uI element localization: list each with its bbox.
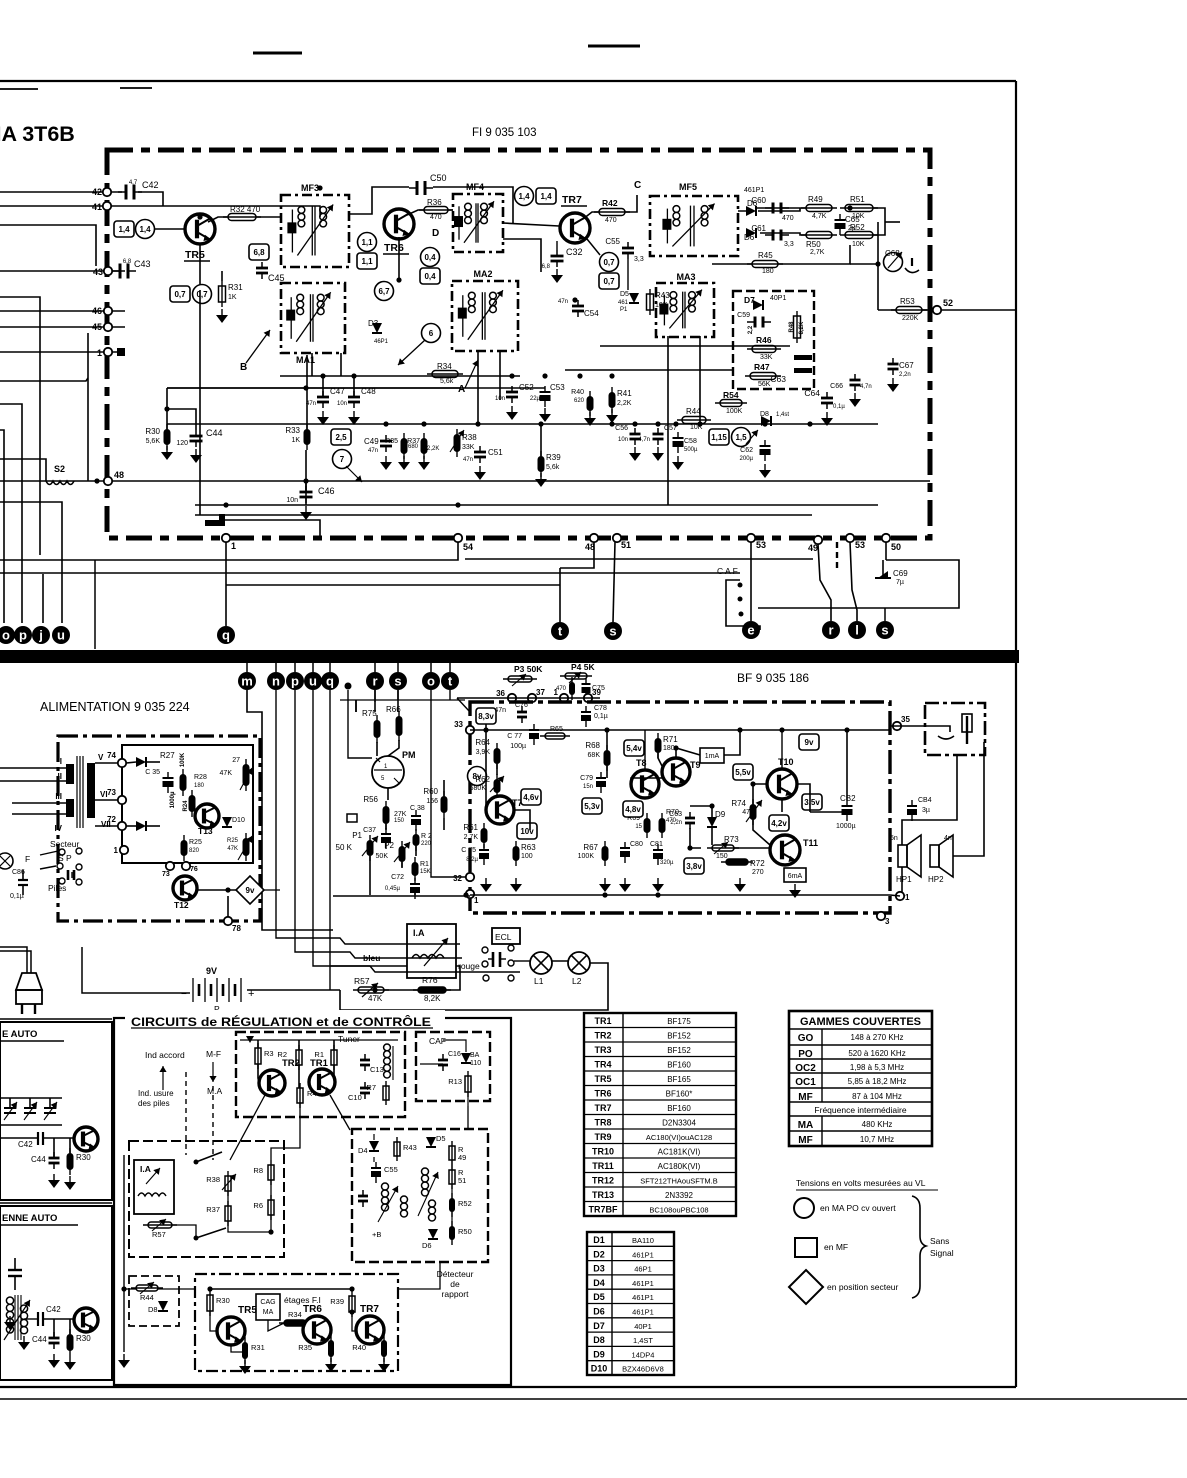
resistor R50 2,7K <box>806 232 832 239</box>
svg-text:D7: D7 <box>744 295 755 305</box>
svg-text:1,4: 1,4 <box>518 192 530 201</box>
legend brace <box>912 1196 926 1298</box>
diode D6 a <box>746 206 756 216</box>
svg-text:6mA: 6mA <box>788 873 803 880</box>
resistor R7 <box>383 1086 389 1100</box>
pot 27 47K <box>243 764 250 786</box>
wire r riser2 <box>374 690 376 702</box>
svg-text:m: m <box>241 674 253 689</box>
svg-text:15n: 15n <box>583 784 593 790</box>
resistor R62 680K <box>494 779 501 793</box>
capacitor C50 <box>416 181 419 195</box>
resistor R1 <box>331 1050 337 1065</box>
capacitor C43 <box>119 264 122 279</box>
meter 1mA <box>700 748 724 763</box>
svg-text:0,1µ: 0,1µ <box>10 893 24 900</box>
svg-text:T12: T12 <box>174 900 189 910</box>
page bottom edge line <box>0 1398 1187 1400</box>
voltage box 1,15 <box>709 429 729 445</box>
diode D5 <box>629 293 639 303</box>
svg-text:TR5: TR5 <box>238 1305 257 1316</box>
wire box2 <box>53 1319 55 1338</box>
svg-text:en MA PO cv ouvert: en MA PO cv ouvert <box>820 1203 896 1213</box>
svg-text:7: 7 <box>340 455 345 464</box>
wire 45 feed <box>0 326 125 328</box>
node 1 bottom <box>222 534 230 542</box>
wire t stub <box>449 663 451 672</box>
svg-text:R39: R39 <box>546 453 561 462</box>
wire T10 drop <box>781 730 783 769</box>
wire o riser2 <box>431 690 466 877</box>
svg-text:4,8v: 4,8v <box>625 805 641 814</box>
svg-text:8,2µ: 8,2µ <box>466 857 478 863</box>
svg-text:R25: R25 <box>189 839 202 846</box>
wire n riser <box>276 690 460 944</box>
svg-text:bleu: bleu <box>363 953 380 963</box>
wire MF4 to TR7 <box>503 223 559 226</box>
terminal o <box>0 626 15 644</box>
node 53 b <box>846 534 854 542</box>
svg-text:MF: MF <box>798 1092 812 1103</box>
resistor R53 220K <box>896 307 922 314</box>
svg-text:1,15: 1,15 <box>711 433 727 442</box>
resistor R75 <box>374 720 381 738</box>
svg-text:en MF: en MF <box>824 1242 848 1252</box>
node 39 <box>584 694 592 702</box>
terminal t lower <box>441 672 459 690</box>
wire C46 col <box>305 481 307 505</box>
resistor R69 15 <box>644 818 651 833</box>
capacitor C45 <box>256 267 268 270</box>
capacitor C49 47n <box>380 440 392 443</box>
svg-text:TR4: TR4 <box>594 1060 611 1070</box>
svg-text:470: 470 <box>782 215 794 222</box>
resistor R46 33K <box>752 346 776 353</box>
svg-text:5,6K: 5,6K <box>146 438 161 445</box>
resistor R66 <box>396 716 403 736</box>
svg-text:6,8: 6,8 <box>253 248 265 257</box>
svg-text:54: 54 <box>463 542 473 552</box>
svg-text:100K: 100K <box>180 752 186 767</box>
svg-text:9v: 9v <box>246 886 255 895</box>
wire R33 col <box>306 355 308 429</box>
wire r curve <box>818 544 831 621</box>
svg-text:110: 110 <box>470 1060 481 1067</box>
svg-text:7µ: 7µ <box>896 579 904 586</box>
svg-text:BF175: BF175 <box>667 1017 691 1026</box>
svg-text:B: B <box>240 362 247 373</box>
resistor R42 470 <box>599 209 625 216</box>
svg-text:47n: 47n <box>558 299 568 305</box>
svg-text:36: 36 <box>496 689 505 698</box>
capacitor C55 3,3 <box>622 247 634 250</box>
node 35 <box>893 722 901 730</box>
svg-text:10n: 10n <box>286 497 298 504</box>
svg-text:R37: R37 <box>407 438 420 445</box>
svg-text:39: 39 <box>592 688 601 697</box>
svg-text:50 K: 50 K <box>336 843 353 852</box>
node 45 <box>104 323 112 331</box>
svg-text:6,8: 6,8 <box>542 264 551 270</box>
capacitor C52 10n <box>506 391 518 394</box>
svg-text:TR6: TR6 <box>303 1304 322 1315</box>
svg-text:2,2n: 2,2n <box>899 372 911 378</box>
svg-text:HP2: HP2 <box>928 875 944 884</box>
svg-text:6,8: 6,8 <box>123 259 132 265</box>
svg-text:470: 470 <box>605 217 617 224</box>
legend circle <box>794 1198 814 1218</box>
capacitor CB4 <box>907 805 917 807</box>
transistor T10 <box>767 769 797 799</box>
svg-text:P3 50K: P3 50K <box>514 664 543 674</box>
connector sq <box>347 814 357 822</box>
svg-text:2,2K: 2,2K <box>617 400 632 407</box>
resistor R32 470 <box>228 214 256 221</box>
svg-text:II: II <box>58 772 62 781</box>
svg-text:l: l <box>855 623 859 638</box>
svg-text:D5: D5 <box>620 291 629 298</box>
svg-text:R31: R31 <box>228 283 243 292</box>
transistor TR7 <box>560 213 590 243</box>
svg-text:1,4st: 1,4st <box>776 412 789 418</box>
svg-text:D10: D10 <box>232 817 245 824</box>
transistor T11 <box>770 835 800 865</box>
svg-text:1,98 à 5,3 MHz: 1,98 à 5,3 MHz <box>850 1063 904 1072</box>
terminal n lower <box>267 672 285 690</box>
wire MA2 col <box>477 351 479 424</box>
svg-text:M.A: M.A <box>207 1086 222 1096</box>
voltage box 0,7 b <box>599 273 619 289</box>
svg-text:40P1: 40P1 <box>634 1322 652 1331</box>
svg-text:45: 45 <box>92 322 102 332</box>
svg-text:OC2: OC2 <box>795 1063 816 1074</box>
svg-text:51: 51 <box>458 1176 466 1185</box>
svg-text:8,2K: 8,2K <box>799 321 805 334</box>
svg-text:R68: R68 <box>585 741 600 750</box>
svg-text:MF5: MF5 <box>679 182 697 192</box>
svg-text:C 35: C 35 <box>145 769 160 776</box>
svg-text:D1: D1 <box>593 1235 605 1245</box>
node 72 <box>118 822 126 830</box>
voltage circle 7 <box>333 450 352 469</box>
wire u stub <box>312 663 314 672</box>
terminal r lower <box>366 672 384 690</box>
voltage box 6,8 <box>249 244 269 260</box>
svg-text:C69: C69 <box>893 569 908 578</box>
svg-text:Ind. usure: Ind. usure <box>138 1089 174 1098</box>
voltage box 0,4 <box>420 268 440 284</box>
capacitor ant2 <box>8 1269 22 1271</box>
wire trim bus <box>0 1097 62 1099</box>
svg-text:R63: R63 <box>521 843 536 852</box>
svg-text:C54: C54 <box>584 309 599 318</box>
svg-text:8,3v: 8,3v <box>478 712 494 721</box>
wire letter o riser <box>0 430 4 623</box>
svg-text:2,2K: 2,2K <box>427 446 439 452</box>
terminal s2 <box>876 621 894 639</box>
svg-text:C59: C59 <box>737 312 750 319</box>
wire TR7 collector <box>583 212 599 219</box>
diode BA110 <box>461 1053 471 1063</box>
node 52 <box>933 306 941 314</box>
svg-text:R24: R24 <box>183 800 189 812</box>
voltage box 8,3v <box>476 708 496 724</box>
svg-text:41: 41 <box>92 202 102 212</box>
resistor R40b <box>381 1340 387 1357</box>
speaker HP2 <box>930 845 939 867</box>
dash 49 drop <box>836 542 838 568</box>
wire 1,5 arrow <box>746 430 758 444</box>
capacitor C76 47n <box>517 711 527 714</box>
svg-text:FI 9 035 103: FI 9 035 103 <box>472 127 537 139</box>
page bottom border <box>0 1386 1016 1388</box>
svg-text:120: 120 <box>176 440 188 447</box>
capacitor C10 <box>360 1087 370 1090</box>
svg-text:2,2: 2,2 <box>748 325 754 334</box>
wire row3 bus a <box>167 387 460 389</box>
svg-text:10n: 10n <box>337 401 347 407</box>
svg-text:GO: GO <box>798 1033 814 1044</box>
svg-text:15: 15 <box>635 824 642 830</box>
svg-text:D8: D8 <box>148 1305 158 1314</box>
wire s2 stub <box>884 608 886 621</box>
resistor R36 470 <box>424 207 448 214</box>
node 73b <box>166 862 174 870</box>
svg-text:des piles: des piles <box>138 1099 170 1108</box>
voltage box 1,4 <box>114 221 134 237</box>
svg-text:461P1: 461P1 <box>632 1279 654 1288</box>
svg-text:1K: 1K <box>291 437 300 444</box>
resistor R30fi 5,6K <box>164 429 171 445</box>
svg-text:1: 1 <box>231 541 236 551</box>
svg-text:r: r <box>372 674 377 689</box>
diode D10 <box>222 817 232 827</box>
svg-text:GAMMES COUVERTES: GAMMES COUVERTES <box>800 1016 921 1028</box>
svg-text:461P1: 461P1 <box>632 1308 654 1317</box>
svg-text:270: 270 <box>752 869 764 876</box>
svg-text:MA2: MA2 <box>473 269 492 279</box>
svg-text:ECL: ECL <box>495 932 512 942</box>
svg-text:0,4: 0,4 <box>424 272 436 281</box>
svg-text:53: 53 <box>855 540 865 550</box>
alim box <box>58 736 260 921</box>
wire 6 arrow <box>398 340 425 365</box>
wire 35 link <box>890 725 929 727</box>
svg-text:R7: R7 <box>366 1083 376 1092</box>
transistor auto2 <box>74 1308 98 1332</box>
wire 1 feed <box>0 351 121 353</box>
terminal t <box>551 622 569 640</box>
svg-text:5,5v: 5,5v <box>735 768 751 777</box>
CAF box <box>416 1032 490 1101</box>
svg-text:R42: R42 <box>602 198 618 208</box>
svg-text:R39: R39 <box>330 1297 344 1306</box>
resistor R39 5,6k <box>538 456 545 472</box>
node 48 left <box>104 477 112 485</box>
transistor TR6b <box>303 1316 331 1344</box>
svg-text:1,4: 1,4 <box>139 225 151 234</box>
svg-text:R32 470: R32 470 <box>230 205 261 214</box>
svg-text:C42: C42 <box>142 180 159 190</box>
wire R32 to MF3 <box>256 216 281 218</box>
diode D8fi <box>761 416 771 426</box>
svg-text:C32: C32 <box>566 247 583 257</box>
wire bus 572 <box>0 572 740 574</box>
svg-text:3,8v: 3,8v <box>686 862 702 871</box>
svg-text:P1: P1 <box>352 831 362 840</box>
capacitor C80 <box>620 847 630 849</box>
svg-text:0,1µ: 0,1µ <box>594 713 608 720</box>
svg-text:s: s <box>394 674 401 689</box>
capacitor C66 4,7n <box>850 379 861 382</box>
trimmer C68 <box>884 253 903 272</box>
svg-text:520 à 1620 KHz: 520 à 1620 KHz <box>848 1049 905 1058</box>
svg-text:D3: D3 <box>593 1264 605 1274</box>
svg-text:10n: 10n <box>618 437 628 443</box>
svg-text:OC1: OC1 <box>795 1077 816 1088</box>
resistor R13 <box>465 1076 471 1092</box>
resistor R49 4,7K <box>806 205 832 212</box>
svg-text:680K: 680K <box>470 785 487 792</box>
meter 6mA <box>784 868 806 882</box>
det cap left <box>358 1195 368 1198</box>
svg-text:37: 37 <box>536 688 545 697</box>
svg-text:C42: C42 <box>46 1305 61 1314</box>
voltage box 1,4 b <box>536 188 556 204</box>
capacitor C44 box2 <box>49 1337 60 1340</box>
wire right col <box>877 222 879 310</box>
wire q stub <box>329 663 331 672</box>
ground bf 6 <box>734 884 746 892</box>
page top border <box>0 80 1016 82</box>
svg-text:R43: R43 <box>403 1143 417 1152</box>
svg-text:461P1: 461P1 <box>632 1250 654 1259</box>
svg-text:1,1: 1,1 <box>361 257 373 266</box>
wire R45 <box>712 263 752 265</box>
diode D6 b <box>746 228 756 238</box>
svg-text:27: 27 <box>232 757 240 764</box>
voltage box 53v <box>582 798 602 814</box>
capacitor C75b <box>479 849 489 851</box>
svg-text:CB2: CB2 <box>840 794 856 803</box>
wire reg diag2 <box>330 1095 350 1130</box>
wire top nest <box>0 225 96 266</box>
transformer MF4 <box>453 194 503 252</box>
capacitor C38 150 <box>411 815 421 817</box>
transformer MA3 <box>656 283 714 337</box>
svg-text:461P1: 461P1 <box>632 1293 654 1302</box>
svg-text:56K: 56K <box>758 381 771 388</box>
wire T7 chain <box>485 724 487 810</box>
capacitor C75 <box>582 683 591 685</box>
capacitor C13 <box>360 1059 370 1062</box>
wire R31 <box>221 271 223 281</box>
dash riser b <box>212 1086 214 1160</box>
terminal u lower <box>304 672 322 690</box>
voltage box 4,6v <box>521 789 541 805</box>
svg-text:33K: 33K <box>760 354 773 361</box>
resistor R40 620 <box>587 396 594 411</box>
diode D9 <box>707 817 717 827</box>
wire t riser2 <box>449 690 451 700</box>
resistor R67 100K <box>602 846 609 861</box>
wire r stub <box>374 663 376 672</box>
svg-text:C67: C67 <box>899 361 914 370</box>
svg-text:P4 5K: P4 5K <box>571 662 595 672</box>
svg-text:Tuner: Tuner <box>338 1034 360 1044</box>
voltage circle 6 <box>422 324 441 343</box>
wire s2 drop <box>885 542 887 560</box>
svg-text:1: 1 <box>905 893 910 902</box>
svg-text:TR2: TR2 <box>282 1058 300 1069</box>
svg-text:9v: 9v <box>805 738 814 747</box>
svg-text:33K: 33K <box>462 444 475 451</box>
svg-text:R71: R71 <box>663 735 678 744</box>
svg-text:D6: D6 <box>744 233 755 242</box>
wire 52 to border <box>941 309 1016 311</box>
resistor R63 100 <box>513 846 520 861</box>
resistor R30b <box>207 1295 213 1311</box>
capacitor C63 <box>794 355 812 360</box>
svg-text:P2: P2 <box>384 841 394 850</box>
svg-text:R28: R28 <box>194 774 207 781</box>
svg-text:S2: S2 <box>54 464 65 474</box>
separator band <box>0 650 1019 663</box>
wire C47 C48 <box>322 376 324 397</box>
pot R38b <box>225 1176 231 1191</box>
wire node row <box>457 697 600 699</box>
wire nest 54 feed <box>0 297 40 555</box>
ground bf 1 <box>480 884 492 892</box>
svg-text:C46: C46 <box>318 486 335 496</box>
capacitor C54 <box>572 305 584 308</box>
voltage circle 1,5 <box>732 428 751 447</box>
terminal r <box>822 621 840 639</box>
voltage circle 6,7 <box>375 282 394 301</box>
svg-text:BF160: BF160 <box>667 1061 691 1070</box>
svg-text:p: p <box>291 674 299 689</box>
wire bus 515 <box>195 514 812 516</box>
wire PM <box>376 742 378 756</box>
svg-text:40P1: 40P1 <box>770 295 786 302</box>
hook mark <box>205 514 225 526</box>
svg-text:TR1: TR1 <box>594 1016 611 1026</box>
wire T10 T11 <box>753 784 767 804</box>
resistor R48 <box>794 316 801 338</box>
svg-text:BF160*: BF160* <box>666 1090 693 1099</box>
svg-text:2µ: 2µ <box>848 225 856 232</box>
voltage box 38v <box>684 858 704 874</box>
BF module box <box>470 702 890 913</box>
resistor R28 180 <box>180 774 187 791</box>
svg-text:C79: C79 <box>580 775 593 782</box>
diamond 9v <box>236 876 264 904</box>
svg-text:Secteur: Secteur <box>50 839 79 849</box>
svg-text:4,2v: 4,2v <box>771 819 787 828</box>
wire bf bottom bus <box>470 894 890 896</box>
svg-text:C72: C72 <box>391 874 404 881</box>
dashed box D7 <box>733 291 814 389</box>
page right border <box>1015 81 1017 1387</box>
capacitor C32 <box>551 255 564 258</box>
wire lamp out <box>340 963 608 1010</box>
capacitor C55b <box>371 1167 381 1169</box>
resistor R6 <box>268 1200 274 1215</box>
resistor R52 10K <box>845 232 873 239</box>
svg-text:Tensions en volts mesurées au: Tensions en volts mesurées au VL <box>796 1178 926 1188</box>
svg-text:5,85 à 18,2 MHz: 5,85 à 18,2 MHz <box>848 1077 907 1086</box>
svg-text:1: 1 <box>554 688 559 697</box>
